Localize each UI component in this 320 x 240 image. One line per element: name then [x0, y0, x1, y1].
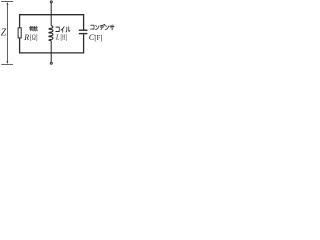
svg-text:[F]: [F] [94, 34, 102, 42]
svg-text:Z: Z [1, 28, 7, 39]
svg-text:L: L [55, 33, 60, 42]
svg-text:R: R [23, 33, 29, 42]
svg-text:[Ω]: [Ω] [30, 34, 38, 42]
svg-text:[H]: [H] [61, 34, 68, 42]
